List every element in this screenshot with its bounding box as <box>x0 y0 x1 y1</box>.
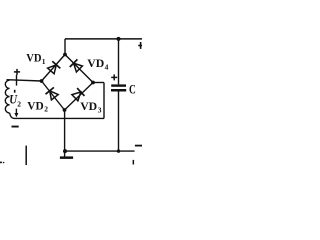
capacitor + polarity mark <box>111 74 117 80</box>
node junction dot on top rail <box>117 37 121 41</box>
u2 voltage arrow lower segment with arrowhead <box>15 109 17 114</box>
diode VD2 triangle <box>50 91 59 100</box>
diode VD3 triangle <box>72 92 81 101</box>
capacitor C top plate <box>111 84 126 86</box>
svg-text:3: 3 <box>98 105 102 114</box>
wire bottom rail <box>65 150 135 152</box>
wire bridge diagonal left-top <box>42 55 66 82</box>
transformer - polarity mark <box>12 126 19 128</box>
svg-text:2: 2 <box>44 105 48 114</box>
u2 voltage arrow upper segment <box>16 75 18 86</box>
bar fragment below bottom vertex <box>60 156 73 159</box>
svg-text:VD: VD <box>27 98 44 112</box>
fragment marks bottom left corner <box>0 162 2 164</box>
output + terminal (top right, clipped at edge) <box>138 42 142 49</box>
svg-text:VD: VD <box>87 56 104 70</box>
node bottom vertex dot <box>63 108 67 112</box>
dot above U (phasor) <box>14 90 16 93</box>
svg-text:2: 2 <box>17 100 21 109</box>
wire bridge diagonal bottom-right <box>65 83 94 111</box>
svg-text:C: C <box>129 82 136 97</box>
capacitor C upper lead <box>118 39 120 85</box>
fragment stub below rail right <box>133 160 135 165</box>
diode VD4 triangle <box>74 63 83 72</box>
node bottom rail left dot <box>63 149 67 153</box>
diode VD2 cathode bar <box>46 87 54 94</box>
wire bridge diagonal top-right <box>65 55 93 83</box>
node top vertex dot <box>63 53 67 57</box>
label U2 <box>9 93 21 109</box>
wire bridge diagonal left-bottom <box>42 81 65 110</box>
wire from top rail down to bridge top vertex <box>64 39 66 55</box>
svg-text:VD: VD <box>26 51 42 65</box>
diode VD1 cathode bar <box>52 61 60 68</box>
transformer + polarity mark <box>14 69 20 75</box>
svg-text:4: 4 <box>105 62 109 71</box>
svg-text:VD: VD <box>80 99 97 113</box>
diode VD4 cathode bar <box>70 59 78 67</box>
node right vertex dot <box>91 81 95 85</box>
capacitor C bottom plate <box>111 89 126 92</box>
diode VD3 cathode bar <box>77 88 84 96</box>
label VD2 <box>27 98 48 113</box>
svg-text:1: 1 <box>42 57 46 66</box>
wire bottom vertex down <box>64 110 66 157</box>
label VD4 <box>87 56 108 71</box>
node left vertex dot <box>40 79 44 83</box>
node bottom rail capacitor dot <box>117 149 120 152</box>
label VD3 <box>80 99 102 114</box>
fragment vertical line bottom left area <box>25 146 27 165</box>
wire top rail <box>65 38 142 40</box>
diode VD1 triangle <box>48 65 57 74</box>
wire coil bottom lead <box>10 113 104 118</box>
coil loops <box>5 80 9 113</box>
wire corner down to bottom lead <box>103 83 105 119</box>
label VD1 <box>26 51 46 66</box>
wire right vertex to corner <box>93 82 104 84</box>
transformer secondary winding coil <box>7 80 42 81</box>
output - terminal (right edge) <box>135 145 142 147</box>
capacitor C lower lead <box>118 92 120 152</box>
